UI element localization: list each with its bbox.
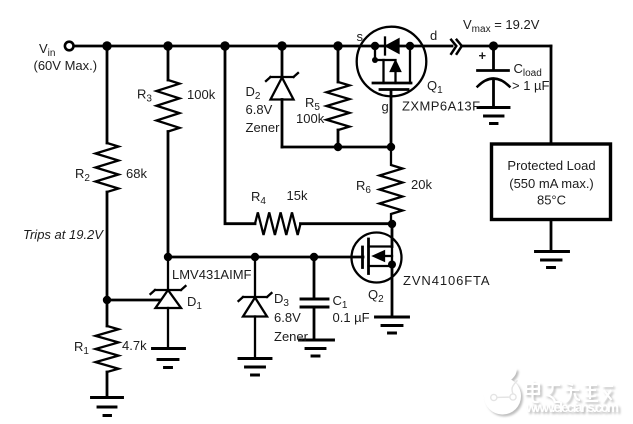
wire R3 branch from top rail [167,46,170,80]
wire C1 branch from rail [313,257,316,299]
break symbol on wire [451,40,462,54]
wire top rail right (break to corner) [462,45,552,48]
zener diode D3 [239,257,272,358]
watermark text 电子发烧友 [526,381,613,402]
ground under C1 [300,340,334,356]
ground under D1 [153,349,185,368]
transistor Q1 ZXMP6A13F (P-channel MOSFET) [357,27,427,97]
svg-text:D2: D2 [246,84,261,102]
junction dot R5/y147 [334,143,342,151]
svg-text:LMV431AIMF: LMV431AIMF [172,267,252,282]
svg-text:15k: 15k [287,188,308,203]
svg-text:6.8V: 6.8V [274,310,301,325]
wire D2 branch from top rail [281,46,284,77]
wire Q2 drain lead [391,224,394,247]
svg-text:> 1 µF: > 1 µF [512,78,550,93]
junction dot R5 tap [333,41,342,50]
junction dot R2/R1 ref tap [103,296,111,304]
wire Cload from Vmax node [492,46,495,70]
svg-text:R1: R1 [74,339,89,357]
wire Cload to ground [492,79,495,107]
svg-text:R2: R2 [75,166,90,184]
watermark logo elecfans [484,368,521,414]
svg-text:D1: D1 [187,294,202,312]
svg-text:d: d [430,28,437,43]
wire reference tap to D1 [107,299,161,302]
wire R5 branch from top rail [337,46,340,82]
load box outline [492,144,611,220]
svg-text:ZVN4106FTA: ZVN4106FTA [403,273,491,288]
junction dot rail/C1 [310,253,318,261]
svg-text:Q1: Q1 [427,78,443,96]
svg-text:20k: 20k [411,177,432,192]
resistor R2 [96,143,119,192]
svg-text:Zener: Zener [274,329,309,344]
svg-text:100k: 100k [296,111,325,126]
junction dot Q1 source [371,42,379,50]
wire top rail left (Vin to break) [75,45,453,48]
svg-text:+: + [479,48,487,63]
ground under Cload [478,108,509,124]
svg-text:6.8V: 6.8V [246,102,273,117]
svg-text:D3: D3 [274,291,289,309]
junction dot D2 tap [277,41,286,50]
zener diode D2 [266,73,298,100]
ground under Q2 [376,317,409,333]
junction dot Q2 source tie [388,261,396,269]
wire branch x=225 from top rail to R4 [225,46,255,224]
wire R4 to R6/Q2 node [301,222,393,225]
wire R1 to ground [106,372,109,397]
svg-text:www.elecfans.com: www.elecfans.com [525,400,619,415]
wire mid rail (LMV431 to Q2 gate) [168,256,363,259]
svg-text:4.7k: 4.7k [122,338,147,353]
wire R2 branch from top rail [106,46,109,143]
transistor Q2 ZVN4106FTA (N-channel MOSFET) [352,233,402,283]
svg-text:68k: 68k [126,166,147,181]
svg-text:0.1 µF: 0.1 µF [333,310,370,325]
resistor R6 [380,147,403,224]
junction dot Q1 gate/R6 [387,143,395,151]
svg-text:Protected Load: Protected Load [507,158,595,173]
svg-text:(60V Max.): (60V Max.) [34,58,98,73]
junction dot Vmax node [489,41,498,50]
junction dot Q1 body tie [372,57,378,63]
shunt reference D1 LMV431AIMF [151,257,186,348]
junction dot Q1 drain [406,42,414,50]
svg-text:Vin: Vin [39,41,55,59]
resistor R1 [96,326,119,372]
wire R2 to R1 [106,192,109,326]
wire D2 to lower node [281,100,284,148]
resistor R5 [327,82,350,130]
ground under R1 [92,398,123,416]
wire Q2 source to ground [391,266,394,317]
svg-text:R4: R4 [251,189,266,207]
junction dot rail/D1 [164,253,172,261]
svg-text:Cload: Cload [514,61,542,79]
junction dot Vin/R2 [102,41,111,50]
junction dot x225 tap [220,41,229,50]
wire right vertical drop to load box [550,46,553,144]
svg-text:85°C: 85°C [537,193,566,208]
svg-text:ZXMP6A13F: ZXMP6A13F [402,99,480,114]
resistor R3 [157,80,180,132]
input terminal Vin [65,42,74,51]
svg-text:s: s [357,29,364,44]
svg-text:Q2: Q2 [368,287,384,305]
svg-text:R3: R3 [137,87,152,105]
svg-text:100k: 100k [187,87,216,102]
svg-text:(550 mA max.): (550 mA max.) [509,176,594,191]
ground under D3 [239,359,271,376]
svg-text:g: g [382,99,389,114]
ground under load box [536,252,569,268]
capacitor Cload (polarized) [478,71,510,87]
wire R3 to LMV431 rail [167,132,170,258]
svg-text:R6: R6 [356,178,371,196]
junction dot rail/D3 [251,253,259,261]
wire load box to ground [550,220,553,252]
junction dot R3 tap [163,41,172,50]
svg-text:Trips at 19.2V: Trips at 19.2V [23,227,104,242]
wire C1 to ground [313,307,316,340]
resistor R4 [255,212,301,235]
capacitor C1 [301,299,328,307]
wire Q1 gate lead [390,90,393,147]
watermark text www.elecfans.com [525,400,619,415]
svg-text:Zener: Zener [246,120,281,135]
svg-text:C1: C1 [333,293,348,311]
wire horizontal y147 (D2 to Q1 gate node) [282,146,391,149]
svg-text:Vmax = 19.2V: Vmax = 19.2V [463,17,540,35]
wire R5 to y147 node [337,130,340,147]
junction dot R4/R6/Q2 drain [388,220,396,228]
